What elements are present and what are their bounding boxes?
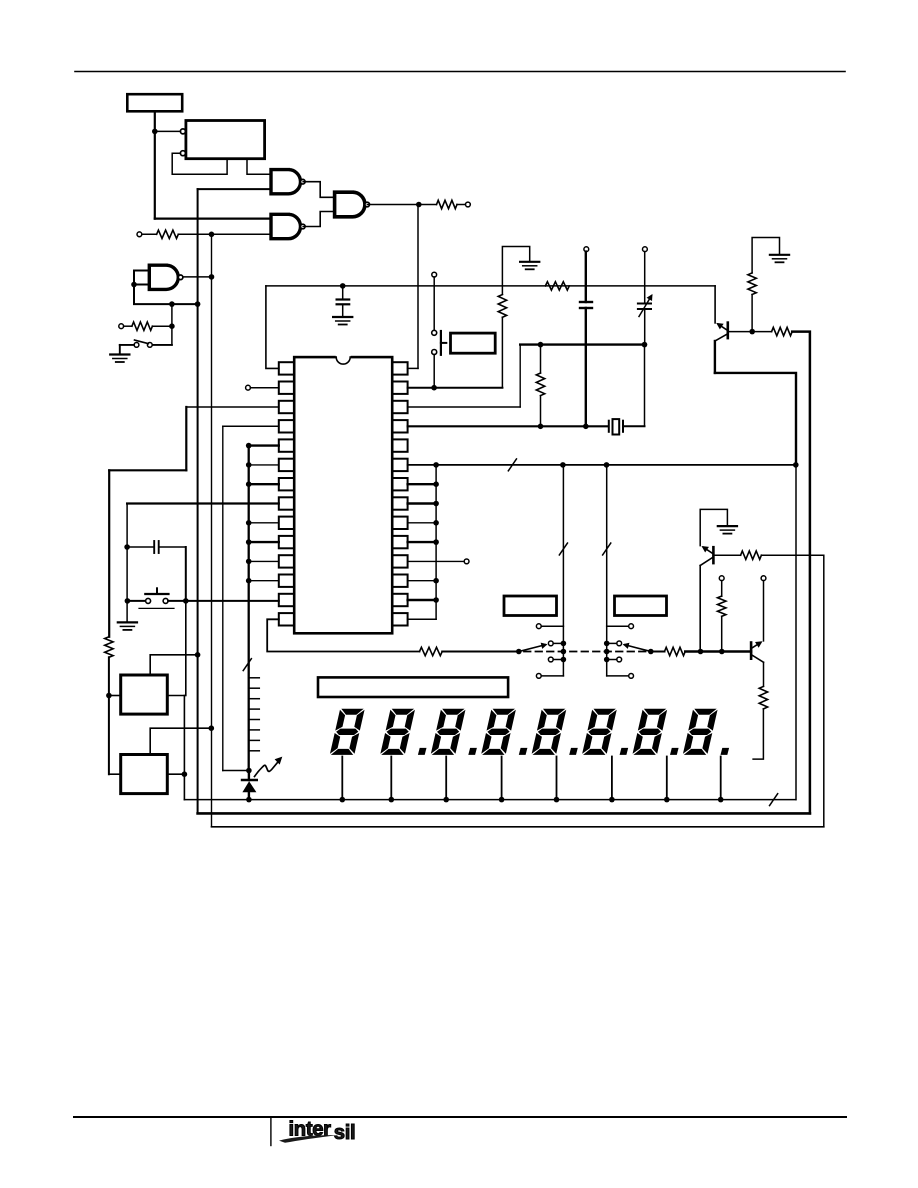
- svg-text:sil: sil: [334, 1122, 356, 1144]
